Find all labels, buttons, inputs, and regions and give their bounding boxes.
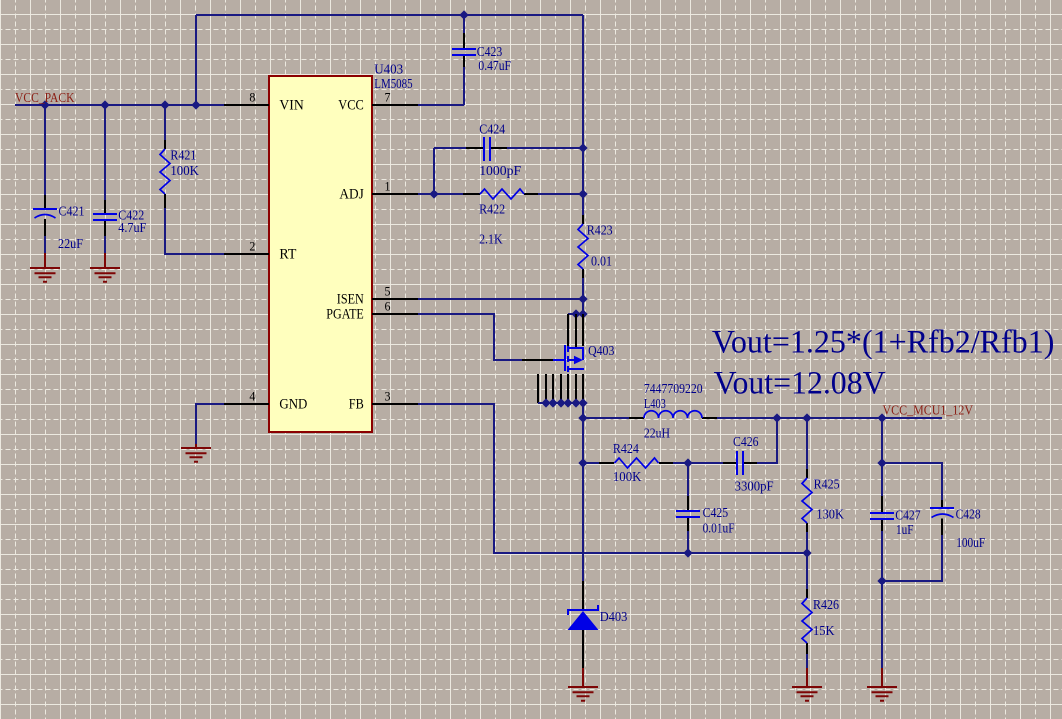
node junction ISEN/right rail xyxy=(579,295,586,302)
node junction output/C427 xyxy=(878,414,885,421)
svg-text:D403: D403 xyxy=(600,610,628,625)
svg-text:0.01uF: 0.01uF xyxy=(703,521,735,536)
node junction VCC_PACK/C422 xyxy=(101,101,108,108)
capacitor C428 100uF (polarized) xyxy=(930,507,954,509)
svg-text:C427: C427 xyxy=(895,508,920,523)
node junction R422/right rail xyxy=(579,190,586,197)
capacitor C424 1000pF xyxy=(484,137,490,161)
wire C424 row xyxy=(434,147,466,149)
node junction source bus x=553 xyxy=(549,399,556,406)
svg-text:Vout=12.08V: Vout=12.08V xyxy=(714,365,886,401)
svg-text:C424: C424 xyxy=(479,123,505,138)
node junction top rail / C423 xyxy=(460,11,467,18)
wire right rail (R423 to drain) xyxy=(582,278,584,314)
node junction source bus x=546 xyxy=(542,399,549,406)
wire R421 branch + RT wire xyxy=(164,105,166,140)
wire drain jumper xyxy=(568,313,583,315)
ground under D403 xyxy=(568,687,598,701)
svg-text:0.47uF: 0.47uF xyxy=(478,59,511,74)
svg-text:L403: L403 xyxy=(644,397,666,412)
svg-text:C425: C425 xyxy=(703,506,729,521)
wire switch node down to D403 xyxy=(582,418,584,581)
pin 7 VCC of U403 xyxy=(372,104,418,106)
svg-text:FB: FB xyxy=(349,397,364,413)
pin 1 ADJ of U403 xyxy=(372,193,418,195)
wire VCC_PACK rail xyxy=(15,104,224,106)
svg-text:C428: C428 xyxy=(956,508,981,523)
node junction VCC_PACK/top-rail drop xyxy=(192,101,199,108)
svg-text:RT: RT xyxy=(279,247,296,263)
capacitor C425 0.01uF xyxy=(676,511,700,517)
wire D403 to ground xyxy=(582,630,584,668)
wire VCC pin to C423 column xyxy=(418,104,464,106)
node junction source bus x=568 xyxy=(564,399,571,406)
capacitor C422 4.7uF xyxy=(93,214,117,220)
svg-text:2: 2 xyxy=(249,239,255,254)
node junction R424/C425 xyxy=(684,459,691,466)
svg-text:1: 1 xyxy=(385,179,391,194)
wire top rail xyxy=(196,14,583,16)
wire switch node to L403 xyxy=(583,417,629,419)
svg-text:22uF: 22uF xyxy=(58,237,83,252)
svg-text:GND: GND xyxy=(279,397,307,413)
pin 4 GND of U403 xyxy=(224,403,269,405)
node junction output/R425 xyxy=(803,414,810,421)
svg-text:1uF: 1uF xyxy=(896,523,914,538)
svg-text:ADJ: ADJ xyxy=(339,187,364,203)
wire C421 branch xyxy=(44,105,46,195)
ground under C422 xyxy=(90,268,120,282)
svg-text:130K: 130K xyxy=(816,508,844,523)
svg-text:3: 3 xyxy=(385,389,391,404)
capacitor C421 22uF (polarized) xyxy=(33,208,57,210)
svg-text:PGATE: PGATE xyxy=(326,307,364,323)
diode D403 (Schottky) xyxy=(568,605,599,630)
capacitor C427 1uF xyxy=(870,513,894,519)
node junction VCC_PACK/C421 xyxy=(41,101,48,108)
svg-text:22uH: 22uH xyxy=(644,427,670,442)
pin drain leads of Q403 xyxy=(568,314,583,347)
node junction drain jumper / right rail xyxy=(579,310,586,317)
svg-text:C426: C426 xyxy=(733,435,759,450)
svg-text:C423: C423 xyxy=(477,45,503,60)
wire source bus xyxy=(538,403,583,418)
svg-text:1000pF: 1000pF xyxy=(479,164,521,179)
resistor R423 0.01 xyxy=(582,215,584,278)
pin 6 PGATE of U403 xyxy=(372,313,418,315)
svg-text:LM5085: LM5085 xyxy=(374,77,412,92)
wire ISEN to right rail xyxy=(418,298,583,300)
svg-text:VCC_MCU1_12V: VCC_MCU1_12V xyxy=(883,404,974,419)
node junction VCC_PACK/R421 xyxy=(161,101,168,108)
node junction C427/C428 bottom xyxy=(878,577,885,584)
wire C422 branch xyxy=(104,105,106,200)
node junction output/C426 xyxy=(773,414,780,421)
resistor R426 15K xyxy=(802,598,812,643)
node junction source bus x=583 xyxy=(579,399,586,406)
ground under pin 4 xyxy=(181,448,211,462)
node junction switch node xyxy=(579,414,586,421)
op-amp/regulator IC U403 LM5085 body xyxy=(269,76,372,432)
svg-text:3300pF: 3300pF xyxy=(735,480,774,495)
pin 2 RT of U403 xyxy=(224,253,269,255)
svg-text:4: 4 xyxy=(249,389,255,404)
svg-text:15K: 15K xyxy=(813,624,835,639)
wire R424 to C426 xyxy=(673,462,723,464)
node junction source bus x=576 xyxy=(572,399,579,406)
svg-text:R426: R426 xyxy=(813,598,839,613)
svg-text:Vout=1.25*(1+Rfb2/Rfb1): Vout=1.25*(1+Rfb2/Rfb1) xyxy=(712,325,1055,361)
node junction switch/R424 row xyxy=(579,459,586,466)
svg-text:VCC: VCC xyxy=(338,98,364,114)
capacitor C426 3300pF xyxy=(737,451,743,475)
wire output rail xyxy=(717,417,942,419)
node junction source bus x=561 xyxy=(557,399,564,406)
svg-text:R423: R423 xyxy=(587,224,613,239)
svg-text:R424: R424 xyxy=(613,442,639,457)
svg-text:2.1K: 2.1K xyxy=(479,232,503,247)
svg-text:0.01: 0.01 xyxy=(591,255,612,270)
wire R425 branch xyxy=(806,418,808,469)
svg-text:4.7uF: 4.7uF xyxy=(118,221,146,236)
svg-text:100K: 100K xyxy=(170,164,199,179)
svg-text:5: 5 xyxy=(385,284,391,299)
wire FB pin to bottom bus xyxy=(418,404,807,553)
ground under R426 xyxy=(792,687,822,701)
svg-text:100K: 100K xyxy=(613,470,642,485)
svg-text:7: 7 xyxy=(385,90,391,105)
svg-text:8: 8 xyxy=(249,90,255,105)
svg-text:VIN: VIN xyxy=(279,98,304,114)
pin 8 VIN of U403 xyxy=(224,104,269,106)
svg-text:U403: U403 xyxy=(374,63,403,78)
wire C427 branch xyxy=(881,418,883,496)
inductor L403 22uH xyxy=(644,411,702,418)
capacitor C423 0.47uF xyxy=(452,49,476,55)
svg-text:R421: R421 xyxy=(170,148,196,163)
wire right rail (top to R423) xyxy=(582,15,584,215)
resistor R424 100K xyxy=(615,458,659,468)
svg-text:R425: R425 xyxy=(814,478,840,493)
wire ADJ pin to R422 xyxy=(418,193,463,195)
node junction C427/C428 top xyxy=(878,459,885,466)
wire C423 column xyxy=(463,15,465,33)
wire R424 row xyxy=(583,462,599,464)
node junction bottom bus / R425-R426 xyxy=(803,549,810,556)
wire R426 branch xyxy=(806,553,808,589)
node junction C424/right rail xyxy=(579,144,586,151)
wire GND pin to ground xyxy=(196,404,224,444)
node junction bottom bus / C425 xyxy=(684,549,691,556)
svg-text:6: 6 xyxy=(385,299,391,314)
wire vertical drop from top rail to VCC_PACK rail xyxy=(195,15,197,105)
ground under C421 xyxy=(30,268,60,282)
node junction ADJ/C424 branch xyxy=(430,190,437,197)
wire PGATE to MOSFET gate xyxy=(418,314,522,360)
svg-text:ISEN: ISEN xyxy=(337,292,364,308)
transistor Q403 (N-MOSFET) xyxy=(553,345,584,372)
resistor R422 2.1K xyxy=(463,193,538,195)
svg-text:R422: R422 xyxy=(479,203,505,218)
pin 5 ISEN of U403 xyxy=(372,298,418,300)
svg-text:C421: C421 xyxy=(59,205,85,220)
node junction drain jumper / middle pin xyxy=(572,310,579,317)
wire C428 loop xyxy=(882,463,942,500)
svg-text:7447709220: 7447709220 xyxy=(644,382,703,397)
resistor R421 100K xyxy=(160,149,170,194)
resistor R425 130K xyxy=(802,478,812,523)
pin 3 FB of U403 xyxy=(372,403,418,405)
ground under C427/C428 xyxy=(867,687,897,701)
svg-text:100uF: 100uF xyxy=(956,536,985,551)
wire C425 branch xyxy=(687,463,689,496)
pin source comb of Q403 xyxy=(538,374,583,403)
wire C424 branch vertical xyxy=(433,148,435,194)
svg-text:VCC_PACK: VCC_PACK xyxy=(15,91,75,106)
svg-text:Q403: Q403 xyxy=(588,344,614,359)
